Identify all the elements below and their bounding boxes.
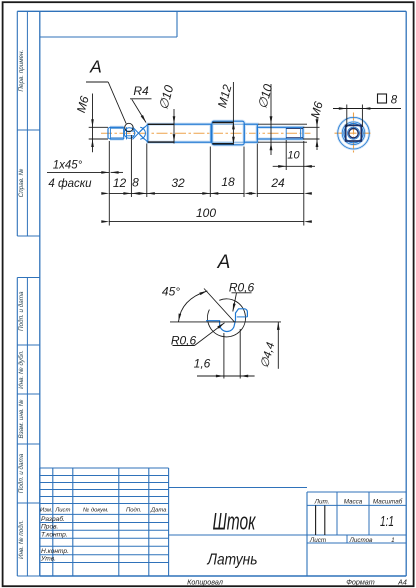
svg-text:Масса: Масса [344, 498, 363, 505]
end view square 8 [346, 125, 362, 141]
svg-text:Подп. и дата: Подп. и дата [17, 453, 25, 493]
svg-text:Утв.: Утв. [40, 556, 56, 563]
detail A callout circle [125, 123, 133, 131]
margin graph: Подп. и дата [16, 444, 18, 503]
svg-text:Масштаб: Масштаб [373, 497, 403, 505]
svg-text:1:1: 1:1 [380, 514, 394, 530]
groove neck [126, 127, 128, 139]
svg-text:1х45°: 1х45° [53, 160, 83, 172]
svg-text:1: 1 [391, 537, 395, 544]
title block grid [39, 468, 41, 576]
part halo underlay [110, 126, 124, 129]
svg-text:№ докум.: № докум. [83, 506, 109, 513]
extension lines bottom dims [108, 141, 110, 226]
detail 45 deg line [204, 289, 235, 323]
svg-text:Пров.: Пров. [41, 524, 59, 531]
detail A boundary circle [207, 299, 245, 337]
svg-text:Изм.: Изм. [40, 507, 53, 513]
end view D10 circle [344, 124, 363, 143]
svg-text:Лит.: Лит. [314, 498, 330, 505]
svg-text:А: А [89, 57, 102, 77]
shaft M6 left section [110, 126, 124, 128]
svg-text:Т.контр.: Т.контр. [41, 532, 68, 539]
svg-text:Инв. № подл.: Инв. № подл. [17, 520, 25, 559]
margin graph: Подп. и дата [16, 278, 18, 346]
detail surface line [170, 321, 281, 323]
margin graph: Справ. № [16, 130, 18, 236]
dim M6 left [89, 126, 108, 128]
ball groove circle [124, 128, 135, 139]
cone crossed lines [133, 127, 145, 139]
shaft D10 right section [244, 124, 257, 142]
svg-text:Дата: Дата [150, 507, 167, 513]
margin graph: Инв. № подл. [16, 503, 18, 576]
dim 100 [109, 221, 303, 223]
M6 left thread minor lines [110, 128, 123, 130]
svg-text:А4: А4 [397, 578, 407, 587]
svg-text:Формат: Формат [346, 578, 375, 587]
lit sub-columns (black) [315, 505, 317, 535]
svg-text:18: 18 [221, 175, 235, 189]
svg-text:Лист: Лист [54, 507, 70, 513]
top designation box [176, 11, 178, 37]
svg-text:Разраб.: Разраб. [41, 515, 65, 523]
shaft M12 section [212, 121, 244, 145]
svg-text:12: 12 [113, 176, 127, 190]
svg-text:R4: R4 [133, 84, 149, 98]
margin graph: Взам. инв. № [16, 394, 18, 444]
svg-text:Н.контр.: Н.контр. [41, 548, 69, 555]
svg-text:Взам. инв. №: Взам. инв. № [18, 399, 25, 438]
svg-text:Лист: Лист [309, 537, 326, 544]
center line main view [101, 132, 311, 134]
dim 1,6 [223, 333, 225, 379]
svg-text:Перв. примен.: Перв. примен. [18, 50, 25, 92]
margin graph: Инв. № дубл. [16, 345, 18, 394]
end view outer circle [338, 117, 370, 149]
svg-text:Латунь: Латунь [207, 552, 258, 569]
svg-text:8: 8 [391, 95, 398, 107]
svg-text:Шток: Шток [213, 509, 257, 536]
svg-text:Подп.: Подп. [126, 507, 142, 513]
drawing frame [17, 10, 406, 12]
detail A profile [206, 309, 247, 332]
svg-text:24: 24 [270, 176, 285, 190]
margin graph: Перв. примен. [16, 11, 18, 130]
svg-text:Подп. и дата: Подп. и дата [17, 291, 25, 331]
end view M12 circle [342, 122, 365, 145]
shaft D10 section [148, 124, 211, 142]
svg-text:8: 8 [132, 176, 139, 190]
svg-text:А: А [217, 252, 231, 273]
end view center cross [335, 132, 373, 134]
dim row 12 8 32 18 24 [109, 192, 244, 194]
shaft M6 right section [257, 127, 303, 139]
svg-text:Листов: Листов [349, 537, 374, 544]
svg-text:32: 32 [171, 176, 185, 190]
svg-text:Инв. № дубл.: Инв. № дубл. [17, 350, 25, 389]
end view M6 circle [348, 127, 360, 139]
svg-text:4 фаски: 4 фаски [48, 178, 92, 190]
dim square 8 [346, 105, 348, 128]
svg-text:Копировал: Копировал [187, 578, 223, 587]
angle dim arc [179, 291, 208, 322]
svg-text:100: 100 [196, 206, 216, 220]
svg-text:10: 10 [287, 150, 300, 162]
dim D4,4 [277, 322, 279, 369]
end view thread minor arc [349, 129, 358, 138]
svg-text:45°: 45° [162, 285, 180, 299]
svg-text:Справ. №: Справ. № [18, 169, 25, 198]
svg-text:1,6: 1,6 [194, 357, 211, 371]
